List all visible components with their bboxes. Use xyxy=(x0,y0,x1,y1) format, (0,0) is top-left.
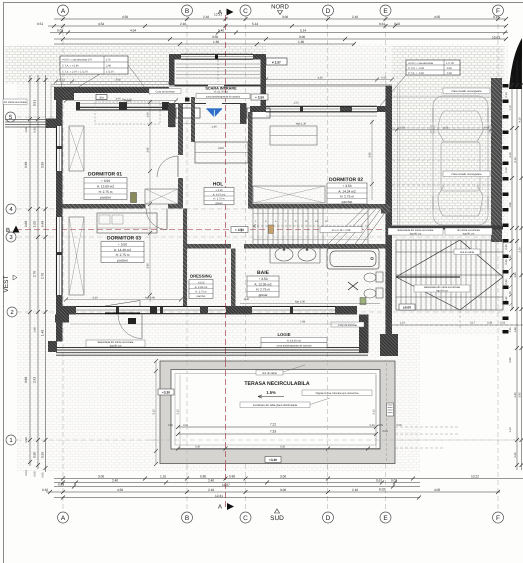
svg-text:3.38: 3.38 xyxy=(24,162,28,168)
svg-text:1.35: 1.35 xyxy=(509,327,512,333)
svg-text:0.95: 0.95 xyxy=(41,452,45,458)
axis circle 4 left xyxy=(6,204,16,214)
dashed lines below stair xyxy=(390,310,520,330)
entrance door blue glass xyxy=(207,109,223,117)
svg-text:H: 2.75 m: H: 2.75 m xyxy=(99,190,113,194)
axis dashes over terrace xyxy=(187,361,328,470)
svg-text:+3.50: +3.50 xyxy=(198,281,205,284)
terrace ring xyxy=(160,361,395,464)
svg-text:Npr 0.90: Npr 0.90 xyxy=(145,297,156,300)
axis circle 5 left xyxy=(6,112,16,122)
left VEST label xyxy=(3,275,17,292)
stair bay top wall xyxy=(169,54,266,60)
svg-text:C.T.N. = -0.45: C.T.N. = -0.45 xyxy=(408,67,425,70)
wall top west band xyxy=(54,87,169,110)
room label dormitor 03 xyxy=(101,236,144,263)
svg-text:Rigola inclina colocata spe me: Rigola inclina colocata spe metouriva xyxy=(316,392,359,395)
dim line above west wall xyxy=(54,79,172,84)
svg-text:2.10: 2.10 xyxy=(509,152,512,158)
building right lower corner block xyxy=(380,334,398,356)
carport right wall posts xyxy=(503,84,509,334)
svg-text:parchet: parchet xyxy=(197,295,206,298)
svg-text:A: 12.60 m2: A: 12.60 m2 xyxy=(97,185,114,189)
exterior stair treads xyxy=(401,240,496,310)
svg-text:C.T.A. = +2.90: C.T.A. = +2.90 xyxy=(62,65,79,68)
svg-text:BAIE: BAIE xyxy=(257,270,270,276)
south window flap xyxy=(105,301,140,314)
logia lamp box xyxy=(128,318,136,324)
logia pilaster left xyxy=(55,315,69,323)
svg-text:1.06: 1.06 xyxy=(25,127,28,133)
section marker A bottom xyxy=(218,503,234,511)
stair door tan xyxy=(269,225,274,234)
vestibule right pier xyxy=(240,103,270,124)
left wall window dormitor03 xyxy=(56,217,63,295)
baie bidet xyxy=(364,288,383,298)
svg-text:4.05: 4.05 xyxy=(434,15,440,19)
svg-text:1.48: 1.48 xyxy=(34,327,37,333)
svg-text:3.30: 3.30 xyxy=(41,162,45,168)
wall bottom south band xyxy=(56,306,357,315)
svg-text:3.12: 3.12 xyxy=(177,409,180,415)
svg-text:3.00: 3.00 xyxy=(280,488,286,492)
top dimension row 5 xyxy=(54,40,356,46)
svg-text:16 x 0.18 = 2.88: 16 x 0.18 = 2.88 xyxy=(332,229,351,232)
svg-text:4.05: 4.05 xyxy=(434,488,440,492)
carport right wall xyxy=(491,78,502,242)
label balustrada logia xyxy=(86,340,145,347)
terrace right small dims xyxy=(390,322,523,326)
svg-text:3.12: 3.12 xyxy=(373,409,376,415)
axis circle C top xyxy=(240,5,251,16)
label balustrada stair 3 xyxy=(414,285,470,292)
svg-text:H: 2.75 m: H: 2.75 m xyxy=(340,195,354,199)
exterior hatch carport xyxy=(392,46,504,226)
svg-text:10.22: 10.22 xyxy=(471,475,479,479)
svg-text:172.97: 172.97 xyxy=(106,71,114,74)
svg-text:0.61: 0.61 xyxy=(379,22,385,26)
exterior stair right outline xyxy=(396,240,503,310)
baie toilet xyxy=(364,272,383,282)
level marker +3.30 bottom xyxy=(265,457,281,463)
svg-text:4.40: 4.40 xyxy=(244,298,250,301)
svg-text:+ 3.50: + 3.50 xyxy=(215,189,223,192)
baie floor drain X xyxy=(348,282,358,290)
svg-text:0.30: 0.30 xyxy=(195,446,201,449)
partition dressing left (d03 right) xyxy=(183,209,187,307)
stair bottom wall xyxy=(244,244,386,249)
stair walk line xyxy=(253,224,368,228)
stair corridor stringers xyxy=(253,214,368,240)
svg-text:2.70: 2.70 xyxy=(33,271,37,277)
svg-text:parchet: parchet xyxy=(100,196,111,200)
svg-text:177.00: 177.00 xyxy=(446,62,454,65)
svg-text:-0.60: -0.60 xyxy=(446,72,452,75)
left dimension column lines xyxy=(24,75,48,478)
svg-text:0.80: 0.80 xyxy=(229,475,235,479)
svg-text:NORD: NORD xyxy=(271,4,289,11)
svg-text:0.98: 0.98 xyxy=(25,437,28,443)
small dark block top wall xyxy=(185,98,190,102)
axis grid lines horizontal xyxy=(17,117,523,440)
carport guide lines xyxy=(392,97,491,185)
svg-text:4.50: 4.50 xyxy=(122,15,128,19)
top dimension row 2 xyxy=(37,22,508,28)
axis circle D top xyxy=(323,5,334,16)
svg-text:0.37: 0.37 xyxy=(400,127,406,130)
room label dressing xyxy=(189,274,213,299)
terrace right inner dim vertical xyxy=(373,375,377,448)
svg-text:1.10: 1.10 xyxy=(400,322,406,325)
svg-text:gresie: gresie xyxy=(215,202,223,205)
svg-text:2.93: 2.93 xyxy=(33,377,37,383)
svg-text:H: 2.75 m: H: 2.75 m xyxy=(195,291,206,294)
svg-text:LOGIE: LOGIE xyxy=(277,332,290,337)
dormitor03 wardrobe X xyxy=(69,217,84,295)
svg-text:1.48: 1.48 xyxy=(41,330,45,336)
axis circle F top xyxy=(493,5,504,16)
svg-text:170: 170 xyxy=(106,59,111,62)
svg-text:0.32: 0.32 xyxy=(500,322,506,325)
svg-text:parchet: parchet xyxy=(342,200,353,204)
svg-text:3.32: 3.32 xyxy=(443,127,449,130)
right stair tick dims xyxy=(509,240,512,306)
wall block right of stair xyxy=(381,205,390,214)
terrace left dim line xyxy=(153,359,159,466)
svg-text:1.00: 1.00 xyxy=(147,112,150,118)
svg-text:1.70: 1.70 xyxy=(509,105,512,111)
svg-text:Gol de tabla: Gol de tabla xyxy=(460,251,475,254)
axis circle F bottom xyxy=(493,512,504,523)
svg-text:0.90: 0.90 xyxy=(33,452,37,458)
dormitor03 bed xyxy=(97,213,157,233)
svg-text:UNIT: UNIT xyxy=(218,147,224,150)
south wall mid pier xyxy=(150,306,157,314)
svg-text:+3.30: +3.30 xyxy=(269,458,277,462)
axis 1 dashes over terrace xyxy=(150,439,523,441)
svg-text:-0.45: -0.45 xyxy=(446,67,452,70)
svg-text:4.29: 4.29 xyxy=(317,77,323,80)
svg-text:Nyit 1.30: Nyit 1.30 xyxy=(296,123,307,126)
svg-text:4.54: 4.54 xyxy=(98,22,104,26)
svg-text:0.03: 0.03 xyxy=(57,29,63,33)
svg-text:hg=90 cm: hg=90 cm xyxy=(463,232,474,235)
svg-text:+0.00 = cota absoluta: +0.00 = cota absoluta xyxy=(408,62,434,65)
label gol de tabla xyxy=(454,249,480,255)
top dimension row 4 xyxy=(54,35,508,41)
svg-text:0.60: 0.60 xyxy=(509,357,512,363)
room label scara intrare xyxy=(196,86,250,98)
vestibule dims xyxy=(168,124,253,129)
terrace title xyxy=(244,381,309,387)
bottom dimension row 5 xyxy=(54,488,421,500)
wall top east band (dormitor02 north wall) xyxy=(250,106,392,112)
roof eave line xyxy=(51,85,392,120)
north arrow symbol top right xyxy=(509,38,522,89)
exterior stair diagonals xyxy=(396,240,503,310)
partition dressing / baie xyxy=(231,249,236,307)
svg-text:3.10: 3.10 xyxy=(519,247,522,253)
svg-text:7.08: 7.08 xyxy=(300,321,306,324)
svg-text:1.5%: 1.5% xyxy=(266,390,276,395)
svg-text:0.30: 0.30 xyxy=(505,279,508,285)
svg-text:A: A xyxy=(218,504,222,511)
interior dim line horizontal d01 xyxy=(64,98,178,103)
svg-text:0.04: 0.04 xyxy=(382,430,388,433)
svg-text:2.45: 2.45 xyxy=(514,392,517,398)
top dimension row 3 xyxy=(50,29,508,40)
room label hol xyxy=(204,182,234,205)
svg-text:hg=90 cm: hg=90 cm xyxy=(110,344,121,347)
baie bathtub xyxy=(327,249,379,270)
svg-text:30A: 30A xyxy=(99,96,104,99)
leader lines top corner xyxy=(60,65,150,95)
svg-text:D: D xyxy=(326,515,331,522)
dim line above d02 wall xyxy=(264,77,394,82)
stair corridor treads xyxy=(253,209,384,245)
wc text xyxy=(240,228,243,232)
section line B-B red dashed horizontal xyxy=(16,229,392,231)
svg-text:C: C xyxy=(243,8,248,15)
exterior hatch top band west xyxy=(56,46,169,86)
legend table top right xyxy=(380,60,460,106)
svg-text:C.T.S. = -0.60: C.T.S. = -0.60 xyxy=(408,72,424,75)
svg-text:Corp de iluminat: Corp de iluminat xyxy=(338,324,357,327)
svg-text:hg=90 cm: hg=90 cm xyxy=(410,232,421,235)
svg-text:9.48: 9.48 xyxy=(41,221,45,227)
svg-text:SCARA INTRARE: SCARA INTRARE xyxy=(205,86,237,90)
svg-text:▾ 2.97: ▾ 2.97 xyxy=(271,60,281,64)
label corp de iluminat logia xyxy=(331,322,364,327)
south wall pier at dressing xyxy=(200,306,208,314)
svg-text:2.70: 2.70 xyxy=(41,273,45,279)
interior dim line vertical xyxy=(147,100,153,302)
svg-text:0.02: 0.02 xyxy=(394,22,400,26)
svg-text:0.02: 0.02 xyxy=(391,479,397,483)
svg-text:0.10: 0.10 xyxy=(505,92,508,98)
svg-text:3.08: 3.08 xyxy=(115,79,121,82)
svg-text:0.30: 0.30 xyxy=(369,424,375,427)
svg-text:0.30: 0.30 xyxy=(505,296,508,302)
car xyxy=(431,96,491,225)
svg-text:1.55: 1.55 xyxy=(293,102,299,105)
svg-text:DRESSING: DRESSING xyxy=(190,274,212,279)
small label box near top corner xyxy=(96,95,107,100)
svg-text:+3.30: +3.30 xyxy=(162,391,170,395)
stair bay left wall xyxy=(169,54,175,86)
terrace right micro labels xyxy=(369,424,402,433)
axis circle D bottom xyxy=(323,512,334,523)
level marker +3.50 hol mid xyxy=(231,227,248,233)
logia door swing xyxy=(118,315,142,339)
svg-text:1.13: 1.13 xyxy=(509,427,512,433)
terrace drain fixture xyxy=(387,403,394,416)
svg-text:1.03: 1.03 xyxy=(169,126,175,129)
terrace bottom inner dim xyxy=(176,446,380,451)
svg-text:2.80: 2.80 xyxy=(514,272,517,278)
terrace slope arrow xyxy=(258,390,284,398)
level marker +3.50 hol top xyxy=(251,94,268,100)
svg-text:7.22: 7.22 xyxy=(270,423,276,427)
svg-text:F: F xyxy=(496,8,500,15)
svg-text:7.33: 7.33 xyxy=(270,430,276,434)
svg-text:gresie: gresie xyxy=(259,293,268,297)
svg-text:0.30: 0.30 xyxy=(505,244,508,250)
svg-text:1.30: 1.30 xyxy=(298,40,304,44)
terrace inner dims xyxy=(168,423,384,437)
NORD label xyxy=(271,4,289,15)
svg-text:Plata metalic rectangulara: Plata metalic rectangulara xyxy=(452,173,483,176)
svg-text:A: 14.36 m2: A: 14.36 m2 xyxy=(287,340,302,343)
svg-text:2.10: 2.10 xyxy=(352,488,358,492)
svg-text:VEST: VEST xyxy=(3,275,10,292)
section dashes over terrace xyxy=(225,361,227,470)
main wall line across bay entrance xyxy=(175,85,261,87)
dormitor02 wardrobe xyxy=(253,186,325,203)
svg-text:3.00: 3.00 xyxy=(98,475,104,479)
SUD label xyxy=(270,509,284,522)
svg-text:4.54: 4.54 xyxy=(130,29,136,33)
interior door hol to bay arc xyxy=(208,86,224,102)
svg-text:5.14: 5.14 xyxy=(252,22,258,26)
axis circle B bottom xyxy=(182,512,193,523)
carport bottom balustrade line xyxy=(392,226,503,230)
svg-text:parchet: parchet xyxy=(117,259,128,263)
svg-text:A: 11.70 m2: A: 11.70 m2 xyxy=(214,91,228,94)
svg-text:Plata metalic rectangulara: Plata metalic rectangulara xyxy=(452,90,483,93)
partition dormitor02 / stair corridor xyxy=(253,204,386,209)
room label logie xyxy=(261,332,327,348)
svg-text:11.07: 11.07 xyxy=(222,483,230,487)
level marker +2.97 xyxy=(266,58,287,65)
partition hol lower / dressing top xyxy=(187,244,231,249)
svg-text:0.91: 0.91 xyxy=(33,100,37,106)
svg-text:0.53: 0.53 xyxy=(59,79,65,82)
svg-text:2.10: 2.10 xyxy=(208,488,214,492)
terrace inner left vertical dim xyxy=(177,375,181,448)
label corp de iluminat top xyxy=(149,89,181,94)
svg-text:0.61: 0.61 xyxy=(376,479,382,483)
svg-text:0.08: 0.08 xyxy=(396,424,402,427)
carport dim line xyxy=(392,127,493,132)
room label dormitor 02 xyxy=(327,177,367,204)
axis circle 3 left xyxy=(6,232,16,242)
carport left wall inner lines xyxy=(398,86,400,226)
d01 wardrobe bottom X xyxy=(145,189,178,204)
exterior hatch west of building xyxy=(5,46,57,84)
svg-text:DORMITOR 02: DORMITOR 02 xyxy=(329,177,363,183)
svg-text:3.45: 3.45 xyxy=(147,147,150,153)
wall right exterior (building / carport left) xyxy=(386,86,393,347)
svg-text:A: A xyxy=(61,8,66,15)
wall east upper connecting piece xyxy=(266,86,392,113)
svg-text:HOL: HOL xyxy=(213,182,224,188)
svg-text:3.88: 3.88 xyxy=(24,377,28,383)
svg-text:+ 3.50: + 3.50 xyxy=(118,243,127,247)
svg-text:5.14: 5.14 xyxy=(300,29,306,33)
svg-text:+ 3.50: + 3.50 xyxy=(259,277,268,281)
partition hol / stair right wall xyxy=(248,112,253,209)
svg-text:5.17: 5.17 xyxy=(470,322,476,325)
left extra micro labels xyxy=(25,127,37,443)
door dormitor03 xyxy=(146,209,167,230)
svg-text:8.02: 8.02 xyxy=(379,488,385,492)
interior dim line horizontal d03 xyxy=(64,297,183,302)
svg-text:SUD: SUD xyxy=(270,515,284,522)
svg-text:0.17: 0.17 xyxy=(493,15,499,19)
svg-text:hg=90 cm: hg=90 cm xyxy=(436,289,447,292)
svg-text:B: B xyxy=(185,515,189,522)
logia band below south wall xyxy=(48,315,369,356)
svg-text:Pat 1.70: Pat 1.70 xyxy=(122,99,132,102)
svg-text:E: E xyxy=(383,515,388,522)
svg-text:0.05: 0.05 xyxy=(168,424,174,427)
exterior hatch above dormitor 02 xyxy=(266,46,392,107)
d02 window label xyxy=(293,102,306,126)
svg-text:H: 2.75 m: H: 2.75 m xyxy=(256,288,270,292)
svg-text:+0.00 = cota absoluta 170: +0.00 = cota absoluta 170 xyxy=(62,59,93,62)
svg-text:Invelitoare din tabla plana di: Invelitoare din tabla plana distribuitad… xyxy=(253,404,298,407)
dormitor01 wardrobe X xyxy=(69,126,84,171)
terrace right dashed extensions xyxy=(387,363,461,462)
svg-text:0.05: 0.05 xyxy=(42,472,45,478)
d02 interior dim line xyxy=(369,120,375,200)
stair bay right wall xyxy=(261,54,267,112)
svg-text:A: 6.67 m2: A: 6.67 m2 xyxy=(213,193,226,196)
svg-text:2.40: 2.40 xyxy=(112,479,118,483)
svg-text:2.10: 2.10 xyxy=(180,22,186,26)
svg-text:3.56: 3.56 xyxy=(115,98,121,101)
svg-text:0.32: 0.32 xyxy=(42,488,48,492)
svg-text:1.40: 1.40 xyxy=(211,126,217,129)
left boundary fence lines xyxy=(5,119,56,129)
svg-text:3.95: 3.95 xyxy=(369,152,372,158)
svg-text:0.05: 0.05 xyxy=(34,471,37,477)
right dimension column lines xyxy=(509,60,523,470)
svg-text:3.12: 3.12 xyxy=(153,409,156,415)
hol closet unit xyxy=(195,142,248,163)
axis circle E bottom xyxy=(380,512,391,523)
svg-text:4.50: 4.50 xyxy=(117,488,123,492)
bottom dimension row 2 xyxy=(54,479,420,487)
legend table top left xyxy=(60,56,128,97)
label +-0.00 xyxy=(399,304,415,310)
svg-text:1.40: 1.40 xyxy=(218,29,224,33)
axis circle A bottom xyxy=(58,512,69,523)
svg-text:TERASA NECIRCULABILA: TERASA NECIRCULABILA xyxy=(244,381,309,387)
svg-text:3.95: 3.95 xyxy=(519,392,522,398)
partition dormitor01 / hol xyxy=(178,103,183,209)
svg-text:DORMITOR 03: DORMITOR 03 xyxy=(107,236,141,242)
svg-text:0.04: 0.04 xyxy=(25,470,28,476)
svg-text:6.10: 6.10 xyxy=(514,157,517,163)
svg-text:3.00: 3.00 xyxy=(282,15,288,19)
d01 radiator xyxy=(131,193,137,203)
stair formula label xyxy=(320,227,362,233)
svg-text:0.30: 0.30 xyxy=(280,446,286,449)
interior dim line horizontal baie xyxy=(240,298,380,304)
d02 inner face line xyxy=(266,115,377,117)
svg-text:2.10: 2.10 xyxy=(352,15,358,19)
svg-text:0.30: 0.30 xyxy=(505,259,508,265)
label gol din tabla terrace xyxy=(256,365,305,375)
svg-text:2.40: 2.40 xyxy=(208,479,214,483)
bottom dimension row 3 xyxy=(54,483,420,489)
stair numbers tiny xyxy=(255,220,328,223)
svg-text:1.48: 1.48 xyxy=(514,327,517,333)
svg-text:3.95: 3.95 xyxy=(147,263,150,269)
svg-text:1.05: 1.05 xyxy=(33,221,37,227)
